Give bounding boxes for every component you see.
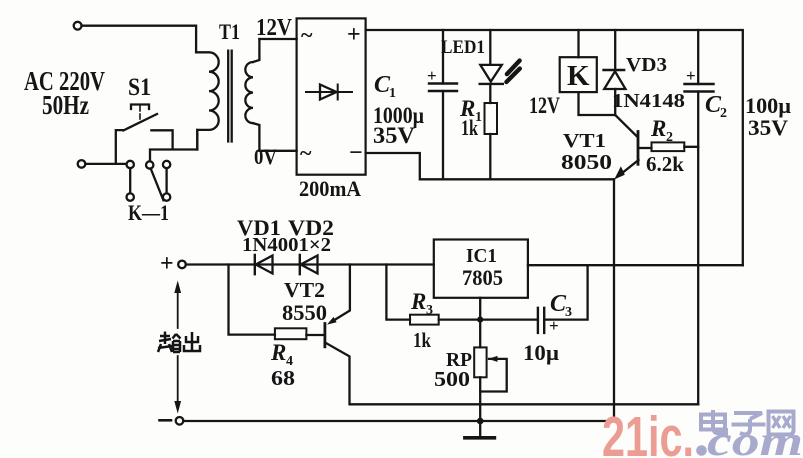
svg-text:VT1: VT1: [563, 130, 606, 152]
svg-text:T1: T1: [219, 19, 240, 44]
svg-text:S1: S1: [128, 74, 151, 101]
svg-text:50Hz: 50Hz: [42, 90, 89, 120]
svg-text:IC1: IC1: [466, 245, 497, 267]
svg-text:7805: 7805: [462, 265, 503, 290]
svg-text:+: +: [427, 66, 437, 85]
svg-text:3: 3: [565, 305, 572, 320]
svg-text:K—1: K—1: [128, 200, 169, 225]
svg-text:R: R: [410, 289, 426, 314]
svg-text:1N4148: 1N4148: [612, 90, 685, 112]
svg-text:21ic.: 21ic.: [602, 405, 694, 458]
svg-text:12V: 12V: [256, 15, 293, 41]
svg-text:1: 1: [389, 86, 396, 101]
svg-text:K: K: [567, 60, 590, 92]
svg-text:10µ: 10µ: [523, 340, 559, 365]
svg-text:0V: 0V: [254, 144, 277, 169]
svg-text:2: 2: [666, 130, 673, 145]
svg-text:+: +: [686, 66, 696, 85]
svg-text:35V: 35V: [748, 115, 788, 140]
svg-text:12V: 12V: [529, 93, 560, 118]
svg-text:1k: 1k: [413, 328, 431, 352]
svg-text:~: ~: [301, 22, 313, 47]
svg-text:200mA: 200mA: [299, 176, 361, 201]
svg-text:R: R: [650, 116, 666, 141]
svg-text:6.2k: 6.2k: [646, 152, 684, 176]
svg-text:+: +: [160, 251, 174, 277]
svg-text:3: 3: [426, 303, 433, 318]
svg-text:68: 68: [271, 366, 295, 390]
svg-text:com: com: [707, 419, 803, 458]
svg-text:VT2: VT2: [284, 278, 325, 302]
svg-text:VD3: VD3: [626, 54, 667, 76]
svg-text:LED1: LED1: [441, 37, 485, 58]
svg-text:+: +: [347, 22, 361, 48]
svg-text:35V: 35V: [373, 123, 415, 148]
svg-text:8050: 8050: [561, 150, 612, 174]
svg-text:1N4001×2: 1N4001×2: [242, 234, 331, 256]
svg-text:500: 500: [434, 367, 470, 391]
svg-text:+: +: [549, 316, 559, 335]
svg-text:1k: 1k: [461, 115, 479, 140]
svg-text:~: ~: [300, 140, 312, 165]
svg-text:−: −: [349, 140, 363, 166]
svg-text:2: 2: [720, 106, 727, 121]
svg-text:R: R: [270, 340, 286, 365]
svg-text:8550: 8550: [282, 300, 327, 325]
